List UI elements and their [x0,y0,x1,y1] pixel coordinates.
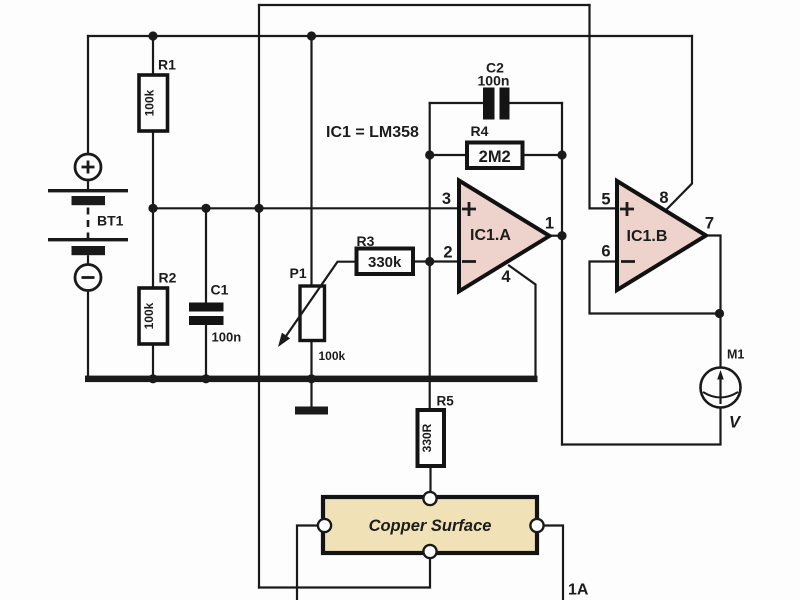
wire R1 top lead [152,36,154,75]
svg-text:2M2: 2M2 [479,148,511,166]
wire top supply rail [88,35,692,37]
junction mid rail long vertical [254,204,263,213]
svg-text:P1: P1 [290,265,307,281]
wire summing node vertical [429,103,431,410]
battery minus lead [87,255,89,264]
wire IC1.B pin8 diagonal to rail [667,36,692,209]
wire mid rail to IC1.A pin3 [153,207,459,209]
svg-text:100k: 100k [142,302,156,329]
battery dashed link [87,208,90,239]
battery plus lead [87,180,89,189]
junction mid rail C1 [201,204,210,213]
op-amp U1 IC1.A [442,181,554,292]
svg-text:100k: 100k [319,349,346,363]
copper surface block [318,492,544,558]
wire copper surface left pin [297,526,318,600]
svg-text:6: 6 [601,243,610,261]
copper pin right [530,519,543,532]
wire P1 top lead [310,36,312,286]
wire R5 bottom lead [429,466,431,492]
wire C2 left lead [430,102,483,104]
wire copper surface bottom pin to bottom rail [259,558,430,588]
copper pin top [423,492,436,505]
wire P1 bottom lead [310,341,312,379]
svg-text:8: 8 [659,189,668,207]
copper pin left [318,519,331,532]
resistor R4 [467,123,523,168]
wire R2 top lead [152,208,154,288]
P1 wiper arrow [285,262,357,339]
svg-text:R5: R5 [437,394,455,409]
junction pin2 node [425,257,434,266]
resistor R3 [357,233,414,274]
wire vertical to IC1.B pin5 [590,5,618,208]
svg-text:100k: 100k [142,89,156,116]
svg-text:1: 1 [545,215,554,233]
svg-text:R4: R4 [471,123,489,139]
resistor R1 [139,57,176,132]
svg-text:IC1.A: IC1.A [470,227,511,244]
wire C1 top lead [205,208,207,302]
wire IC1.B pin6 feedback [590,262,720,314]
svg-text:4: 4 [501,268,511,286]
wire copper surface right pin [544,526,564,600]
battery cell2 short plate [72,246,106,255]
potentiometer P1 [278,262,357,363]
svg-text:330R: 330R [420,423,434,452]
junction IC1.B output feedback [715,309,724,318]
meter M1 [701,348,745,432]
battery cell2 long plate [48,238,128,241]
svg-text:BT1: BT1 [97,212,124,228]
svg-text:IC1 = LM358: IC1 = LM358 [326,124,419,141]
wire long vertical left of top link down to bottom rail [258,5,260,588]
wire R4 left lead [430,154,467,156]
junction top rail R1 [148,31,157,40]
wire R2 bottom lead [152,344,154,379]
junction bus P1 [307,374,316,383]
junction bus C1 [201,374,210,383]
wire C2 right lead [510,102,563,104]
svg-text:3: 3 [442,190,451,208]
op-amp U2 IC1.B [601,181,714,290]
ground symbol bar [295,407,328,415]
wire IC1.B pin7 to M1 top [706,236,721,368]
wire battery negative lead to ground bus [87,291,89,379]
svg-text:5: 5 [601,191,610,209]
svg-text:R2: R2 [159,270,177,286]
svg-text:R1: R1 [158,57,176,73]
junction top rail P1 [307,31,316,40]
ground bus (thick) [85,376,538,383]
wire IC1.A output stub [550,235,563,237]
svg-text:R3: R3 [357,233,375,249]
battery minus terminal circle [75,265,101,291]
resistor R2 [139,270,177,345]
junction IC1.A output [557,231,566,240]
copper pin bottom [423,545,436,558]
wire IC1.A pin4 diagonal to bus [509,266,536,376]
wire top link horizontal [259,4,590,6]
svg-text:7: 7 [705,215,714,233]
wire IC1.A output vertical down [561,103,563,445]
svg-text:1A: 1A [568,582,589,599]
capacitor C2 [478,60,510,120]
wire C1 bottom lead [205,325,207,379]
battery cell1 long plate [48,189,128,192]
junction R4 left [425,150,434,159]
wire ground stub under bus [310,379,312,407]
junction mid rail R1/R2 [148,204,157,213]
svg-text:2: 2 [443,244,452,262]
junction bus R2 [148,374,157,383]
svg-text:100n: 100n [212,330,242,345]
junction R4 right [557,150,566,159]
wire R3 to IC1.A pin2 [413,260,459,262]
battery BT1 [48,154,128,291]
svg-text:330k: 330k [368,254,402,271]
wire R4 right lead [523,154,563,156]
battery plus terminal circle [75,154,101,180]
svg-text:Copper Surface: Copper Surface [369,517,492,535]
capacitor C1 [189,282,241,345]
wire battery positive lead [87,36,89,155]
svg-text:M1: M1 [727,348,744,362]
resistor R5 [418,394,455,467]
svg-text:100n: 100n [478,73,510,89]
wire bottom link to M1 [562,408,721,445]
svg-text:IC1.B: IC1.B [627,228,668,245]
svg-text:C1: C1 [211,282,229,298]
wire R1 bottom lead [152,131,154,208]
battery cell1 short plate [72,196,106,205]
